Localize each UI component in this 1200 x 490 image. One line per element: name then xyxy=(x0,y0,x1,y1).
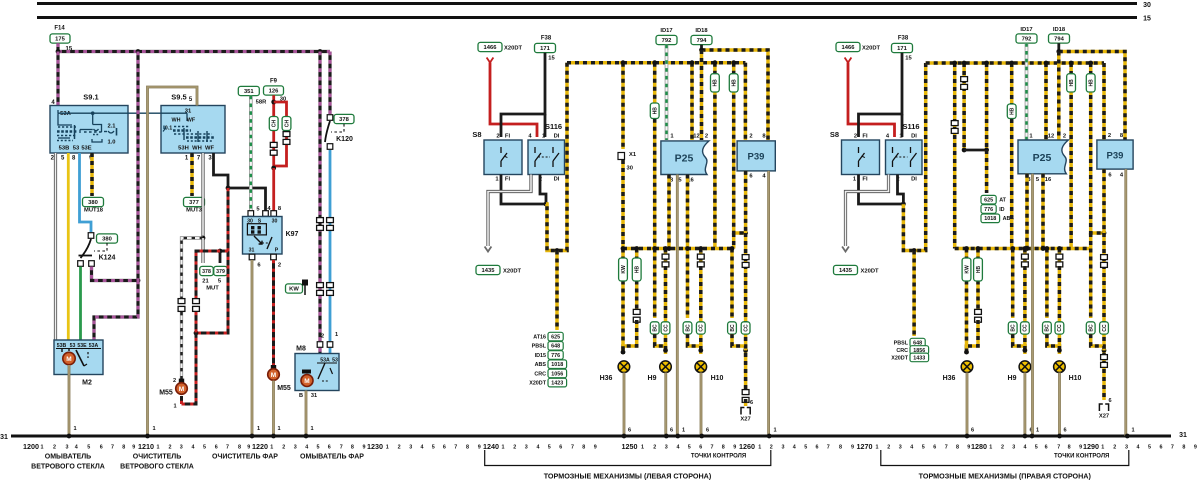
svg-text:M2: M2 xyxy=(82,380,92,387)
junction H10 right merge xyxy=(1057,348,1062,353)
splice 1435 right xyxy=(834,265,858,274)
wire F38 black right xyxy=(859,53,903,137)
wire trunk drop left xyxy=(546,63,567,251)
svg-text:1018: 1018 xyxy=(984,216,996,222)
svg-text:HB: HB xyxy=(1010,107,1016,115)
junction P25-16 trunk2 xyxy=(685,246,690,251)
wire K120 blue to M8 xyxy=(329,150,332,341)
svg-text:M: M xyxy=(66,356,71,363)
wire H10 right B xyxy=(1058,249,1062,267)
wire x714 left xyxy=(713,63,717,249)
junction S9.5 ground at rail xyxy=(145,434,150,439)
svg-text:2: 2 xyxy=(749,134,752,140)
svg-text:12: 12 xyxy=(1048,134,1054,140)
K124 dashed link xyxy=(94,243,107,251)
svg-text:792: 792 xyxy=(662,38,672,44)
wire black/red horizontal y251 xyxy=(220,250,228,253)
colour code H10 left A xyxy=(683,322,692,334)
arrow 1435 left xyxy=(485,247,492,252)
junction black bar right xyxy=(984,148,989,153)
svg-text:F38: F38 xyxy=(541,36,552,42)
junction x733 top xyxy=(731,60,736,65)
wire P39-4 ground left xyxy=(767,171,770,436)
wire H9 right A xyxy=(1011,249,1015,319)
M8 internals xyxy=(302,358,338,382)
connector X27 right upper xyxy=(1101,355,1108,368)
svg-text:1: 1 xyxy=(173,404,176,410)
svg-text:P39: P39 xyxy=(1107,151,1124,162)
connector X27 left xyxy=(741,408,750,415)
junction white y238 xyxy=(201,236,206,241)
svg-text:15: 15 xyxy=(1143,16,1151,23)
svg-text:5: 5 xyxy=(688,444,691,450)
svg-text:5: 5 xyxy=(548,444,551,450)
svg-text:53: 53 xyxy=(73,146,80,152)
wire black/red vertical x228 xyxy=(196,188,228,333)
svg-text:2: 2 xyxy=(1108,133,1111,139)
node bus x138 xyxy=(136,49,141,54)
svg-text:HB: HB xyxy=(1069,79,1075,87)
wire P25-8 drain left xyxy=(667,175,671,249)
svg-text:2: 2 xyxy=(513,444,516,450)
junction P25-5 ground left xyxy=(675,434,680,439)
junction x1090 top xyxy=(1088,61,1093,66)
svg-text:HB: HB xyxy=(732,79,738,87)
labels 21 5 MUT xyxy=(202,278,222,291)
svg-text:MUT: MUT xyxy=(206,286,219,292)
svg-text:1: 1 xyxy=(335,332,338,338)
wire P25-5 ground right xyxy=(1031,174,1034,436)
M2 internals xyxy=(56,343,101,352)
wire stub to 379 xyxy=(219,251,222,263)
wire H9 left A xyxy=(653,249,657,319)
wire H10 right B lower xyxy=(1058,266,1062,354)
wire black/pink x320 to M8 xyxy=(318,52,321,342)
wire stack feed right xyxy=(912,251,916,337)
junction 379 stub xyxy=(218,249,223,254)
svg-text:1280: 1280 xyxy=(971,442,987,451)
svg-text:9: 9 xyxy=(967,444,970,450)
connector P39-6 right xyxy=(1101,255,1108,268)
svg-text:8: 8 xyxy=(238,444,241,450)
svg-text:CC: CC xyxy=(1023,324,1029,332)
wire H10 left partner jog xyxy=(688,334,701,350)
junction black red y188 xyxy=(226,186,231,191)
svg-text:2: 2 xyxy=(282,444,285,450)
svg-text:6: 6 xyxy=(971,428,974,434)
svg-text:31: 31 xyxy=(249,248,255,254)
junction P39-4 ground left xyxy=(767,434,772,439)
wire 351 green/white to K97 xyxy=(249,96,253,213)
svg-text:7: 7 xyxy=(571,444,574,450)
wire H9 right B lower xyxy=(1023,266,1027,354)
svg-text:53E: 53E xyxy=(77,343,87,349)
colour code HB left xyxy=(632,258,641,281)
switch S8 left xyxy=(484,140,522,175)
colour code HB right xyxy=(974,258,983,281)
junction H36 left merge xyxy=(621,350,626,355)
svg-text:P: P xyxy=(275,248,279,254)
svg-text:DI: DI xyxy=(554,177,560,183)
svg-text:2: 2 xyxy=(887,444,890,450)
connector P39-6 left xyxy=(742,255,749,268)
S9.1 internals xyxy=(57,110,161,152)
svg-text:H36: H36 xyxy=(943,375,956,382)
wire H10 right A jog xyxy=(1047,334,1060,350)
splice 377 MUT3 xyxy=(184,197,205,206)
wire H10 left B lower xyxy=(699,266,703,354)
wire 794 stub right xyxy=(1057,43,1060,51)
junction 794 right xyxy=(1056,49,1061,54)
junction black/red y333 xyxy=(194,331,199,336)
svg-text:1056: 1056 xyxy=(551,371,563,377)
wire M8 ground xyxy=(305,391,308,437)
P25 left bottom pin labels xyxy=(670,178,695,184)
relay contact K124 xyxy=(78,233,95,267)
arrow 1466 right xyxy=(845,58,852,63)
junction x954 top xyxy=(952,61,957,66)
S116 left top pin labels xyxy=(528,134,559,140)
svg-text:ID: ID xyxy=(999,207,1004,213)
S9.5 bottom pin numbers xyxy=(185,156,213,162)
svg-text:M8: M8 xyxy=(296,346,306,353)
svg-text:1466: 1466 xyxy=(842,45,856,51)
junction red merge xyxy=(271,166,276,171)
svg-text:ОМЫВАТЕЛЬ: ОМЫВАТЕЛЬ xyxy=(45,454,91,461)
wire upper trunk right xyxy=(1059,52,1125,141)
svg-text:2: 2 xyxy=(278,263,281,269)
relay contact K120 xyxy=(325,115,333,150)
junction K97 ground xyxy=(250,434,255,439)
svg-text:CH: CH xyxy=(284,120,290,128)
svg-text:380: 380 xyxy=(88,200,98,206)
svg-text:1433: 1433 xyxy=(913,355,925,361)
switch S8 right xyxy=(842,140,880,175)
svg-text:7: 7 xyxy=(226,444,229,450)
junction H9 right ground xyxy=(1023,434,1028,439)
svg-text:9: 9 xyxy=(478,444,481,450)
junction P25-12 left xyxy=(690,60,695,65)
motor M55 right xyxy=(268,369,280,381)
junction x1011 top xyxy=(1009,61,1014,66)
svg-text:4: 4 xyxy=(1024,444,1027,450)
svg-text:1250: 1250 xyxy=(622,442,638,451)
svg-text:3: 3 xyxy=(525,444,528,450)
svg-text:7: 7 xyxy=(1171,444,1174,450)
colour code on x1090 xyxy=(1086,74,1095,92)
svg-text:2: 2 xyxy=(1001,444,1004,450)
S8 left internals xyxy=(501,147,507,167)
svg-text:ВЕТРОВОГО СТЕКЛА: ВЕТРОВОГО СТЕКЛА xyxy=(31,464,105,471)
svg-text:CC: CC xyxy=(1102,324,1108,332)
wire x1090 to trunk2 right xyxy=(1089,233,1093,249)
wire P25-12 left xyxy=(690,63,694,140)
junction M2 ground xyxy=(67,434,72,439)
ECU P25 right xyxy=(1018,140,1068,174)
colour code on x714 xyxy=(711,74,720,92)
svg-text:ОЧИСТИТЕЛЬ: ОЧИСТИТЕЛЬ xyxy=(133,454,181,461)
svg-text:MUT3: MUT3 xyxy=(186,208,203,214)
splice 1435 left xyxy=(476,265,500,274)
fuse F14 value 175 xyxy=(50,34,70,43)
junction X27A trunk2 left xyxy=(730,246,735,251)
svg-text:S9.1: S9.1 xyxy=(83,93,98,102)
S8 left top pin labels xyxy=(496,134,510,140)
junction black bar left xyxy=(962,148,967,153)
svg-text:FI: FI xyxy=(862,134,868,140)
colour code X27 left A xyxy=(728,322,737,334)
svg-text:379: 379 xyxy=(216,269,225,275)
svg-text:F38: F38 xyxy=(898,36,909,42)
svg-text:ABS: ABS xyxy=(535,362,547,368)
relay K97 box xyxy=(243,217,283,255)
wire trunk2 right xyxy=(955,247,1091,251)
junction x138 y280 xyxy=(136,278,141,283)
svg-text:AT: AT xyxy=(999,198,1006,204)
svg-text:X27: X27 xyxy=(740,417,750,423)
svg-text:3: 3 xyxy=(782,444,785,450)
wire F9 right branch xyxy=(274,102,287,166)
svg-text:8: 8 xyxy=(466,444,469,450)
junction S116-2 net left xyxy=(544,202,549,207)
svg-text:CC: CC xyxy=(1057,324,1063,332)
P39 left box xyxy=(737,141,775,171)
connector on M55 left return xyxy=(193,299,200,312)
svg-text:ОЧИСТИТЕЛЬ ФАР: ОЧИСТИТЕЛЬ ФАР xyxy=(212,454,278,461)
svg-text:4: 4 xyxy=(192,444,195,450)
wire X27 left A xyxy=(730,249,734,319)
wire H36 left ground xyxy=(623,373,626,437)
bracket brakes right side xyxy=(881,450,1129,466)
svg-text:7: 7 xyxy=(454,444,457,450)
svg-text:K120: K120 xyxy=(336,136,353,143)
wire S116-2 black stub left xyxy=(540,175,546,205)
svg-text:625: 625 xyxy=(984,198,993,204)
connector HB left xyxy=(633,309,640,322)
P39 left top pin labels xyxy=(749,134,766,140)
svg-text:1: 1 xyxy=(989,444,992,450)
svg-text:HB: HB xyxy=(635,266,641,274)
supply rail 15 xyxy=(37,16,1137,19)
svg-text:378: 378 xyxy=(339,117,349,123)
colour code H9 right B xyxy=(1021,322,1030,334)
wire white to M55 pin2 xyxy=(180,312,183,380)
junction H9 left ground xyxy=(664,434,669,439)
colour code X27 right A xyxy=(1086,322,1095,334)
wire P39-6 drain right xyxy=(1102,169,1106,233)
svg-text:5: 5 xyxy=(922,444,925,450)
svg-text:3: 3 xyxy=(665,444,668,450)
junction x1090 y233 xyxy=(1102,231,1107,236)
svg-text:ВЕТРОВОГО СТЕКЛА: ВЕТРОВОГО СТЕКЛА xyxy=(120,464,194,471)
S116 right top pin labels xyxy=(886,134,917,140)
wire x733 left xyxy=(734,63,746,233)
svg-text:KW: KW xyxy=(289,287,299,293)
svg-text:HB: HB xyxy=(1089,79,1095,87)
svg-text:2: 2 xyxy=(321,334,324,340)
wire X27 column left xyxy=(744,233,748,390)
junction HB right top xyxy=(976,246,981,251)
node bus x320 xyxy=(318,49,323,54)
S116 left internals xyxy=(535,147,559,167)
ground rail 31 xyxy=(11,435,1171,438)
svg-text:KW: KW xyxy=(964,265,970,274)
colour code H9 right A xyxy=(1008,322,1017,334)
svg-text:2: 2 xyxy=(1113,444,1116,450)
caption washer windshield xyxy=(31,454,105,471)
svg-text:4: 4 xyxy=(793,444,796,450)
svg-text:X20DT: X20DT xyxy=(504,46,523,52)
wire upper trunk left xyxy=(702,50,769,140)
junction H10 left ground xyxy=(699,434,704,439)
arrow 1466 left xyxy=(487,58,494,63)
svg-text:M55: M55 xyxy=(159,390,173,397)
svg-text:4: 4 xyxy=(1137,444,1140,450)
svg-text:H9: H9 xyxy=(648,375,657,382)
junction P25-12 right xyxy=(1044,61,1049,66)
svg-text:8: 8 xyxy=(839,444,842,450)
svg-text:171: 171 xyxy=(897,46,907,52)
wire x1071 right xyxy=(1069,63,1073,249)
svg-text:126: 126 xyxy=(269,89,279,95)
S9.1 bottom pin numbers xyxy=(51,156,94,162)
svg-text:H10: H10 xyxy=(711,375,724,382)
junction P25-16 trunk2 right xyxy=(1041,246,1046,251)
svg-text:5: 5 xyxy=(432,444,435,450)
wire H9 right ground xyxy=(1024,373,1027,437)
svg-text:4: 4 xyxy=(677,444,680,450)
svg-text:7: 7 xyxy=(711,444,714,450)
svg-text:H9: H9 xyxy=(1008,375,1017,382)
wire H10 left B xyxy=(699,249,703,267)
svg-text:1260: 1260 xyxy=(739,442,755,451)
arrow 1435 right xyxy=(842,247,849,252)
svg-text:AT16: AT16 xyxy=(533,335,546,341)
wire to M2 53A xyxy=(94,281,138,341)
wire H9 left A jog xyxy=(655,334,666,350)
svg-text:CC: CC xyxy=(743,324,749,332)
junction x714 top xyxy=(713,60,718,65)
svg-text:1200: 1200 xyxy=(23,442,39,451)
wire x733 to trunk2 left xyxy=(732,233,736,249)
svg-text:1: 1 xyxy=(876,444,879,450)
svg-text:6: 6 xyxy=(699,444,702,450)
svg-text:FI: FI xyxy=(505,177,511,183)
svg-text:X20DT: X20DT xyxy=(503,269,522,275)
motor M55 right terminal xyxy=(271,365,276,369)
svg-text:1: 1 xyxy=(152,426,155,432)
svg-text:1: 1 xyxy=(277,426,280,432)
svg-text:HB: HB xyxy=(976,266,982,274)
wire trunk drop right xyxy=(903,63,925,251)
motor M2 box xyxy=(54,340,103,375)
svg-text:1: 1 xyxy=(270,444,273,450)
junction M55 right ground xyxy=(271,434,276,439)
svg-text:FI: FI xyxy=(862,177,868,183)
svg-text:31: 31 xyxy=(311,393,317,399)
svg-text:X20DT: X20DT xyxy=(862,46,881,52)
colour code on x733 xyxy=(729,74,738,92)
wire X27 right A jog xyxy=(1091,334,1104,350)
svg-text:625: 625 xyxy=(551,335,560,341)
wire H9 left B lower xyxy=(664,266,668,354)
svg-text:1: 1 xyxy=(641,444,644,450)
wire H10 right A xyxy=(1045,249,1049,319)
splice 1466 right xyxy=(836,42,860,51)
svg-text:31: 31 xyxy=(0,434,8,441)
svg-text:1: 1 xyxy=(1131,428,1134,434)
svg-text:X1: X1 xyxy=(629,152,637,158)
svg-text:53: 53 xyxy=(70,343,76,349)
wire X1 lower left xyxy=(621,160,625,249)
wire F9 down xyxy=(272,95,275,168)
svg-text:53H: 53H xyxy=(178,146,189,152)
svg-text:WF: WF xyxy=(187,118,196,124)
wire H9 right A jog xyxy=(1013,334,1025,350)
P39 right box xyxy=(1097,140,1133,169)
wire trunk2 left xyxy=(623,247,734,251)
svg-text:ID18: ID18 xyxy=(1053,27,1066,33)
wire S116-3 grey right xyxy=(846,175,889,247)
splice 380 at K124 xyxy=(97,234,118,243)
svg-text:6: 6 xyxy=(1045,444,1048,450)
svg-text:1: 1 xyxy=(682,428,685,434)
colour code CH right xyxy=(282,117,291,131)
S116 right bottom pin labels xyxy=(887,177,917,183)
colour code X27 right B xyxy=(1100,322,1109,334)
wire X27 left tail xyxy=(744,399,748,406)
svg-text:1: 1 xyxy=(41,444,44,450)
svg-text:P39: P39 xyxy=(748,152,765,163)
wire P25-8 drain right xyxy=(1025,174,1029,249)
wire bus to K120 xyxy=(328,52,331,115)
connector H10 left B xyxy=(697,254,704,267)
colour code KW left xyxy=(619,258,628,281)
wire 794 to P25-2 right xyxy=(1057,52,1061,141)
svg-text:3: 3 xyxy=(1125,444,1128,450)
wire S9.1 pin9 yellow/black to MUT18 xyxy=(90,153,94,196)
svg-text:4: 4 xyxy=(910,444,913,450)
svg-text:9: 9 xyxy=(132,444,135,450)
wire x964 right xyxy=(962,63,966,150)
svg-text:6: 6 xyxy=(706,428,709,434)
splice 378 at K120 xyxy=(334,114,354,123)
connector red left branch xyxy=(270,142,277,155)
wire P25-5 ground left xyxy=(676,175,679,437)
svg-text:2: 2 xyxy=(169,444,172,450)
connector H9 left B xyxy=(662,254,669,267)
wire F38 black left xyxy=(501,53,545,137)
svg-text:7: 7 xyxy=(945,444,948,450)
svg-text:794: 794 xyxy=(1054,37,1064,43)
splice 794 left xyxy=(691,35,712,44)
svg-text:K97: K97 xyxy=(286,231,299,238)
svg-text:ТОЧКИ КОНТРОЛЯ: ТОЧКИ КОНТРОЛЯ xyxy=(691,454,746,460)
svg-text:171: 171 xyxy=(540,46,550,52)
svg-text:6: 6 xyxy=(933,444,936,450)
svg-text:1435: 1435 xyxy=(482,268,496,274)
colour code H10 right B xyxy=(1055,322,1064,334)
svg-text:2: 2 xyxy=(854,134,857,140)
svg-text:8: 8 xyxy=(1182,444,1185,450)
svg-text:15: 15 xyxy=(548,56,555,62)
svg-text:30: 30 xyxy=(272,219,278,225)
svg-text:B: B xyxy=(299,393,303,399)
svg-text:1018: 1018 xyxy=(551,362,563,368)
junction H10A trunk2 right xyxy=(1045,246,1050,251)
svg-text:7: 7 xyxy=(827,444,830,450)
svg-text:1240: 1240 xyxy=(483,442,499,451)
